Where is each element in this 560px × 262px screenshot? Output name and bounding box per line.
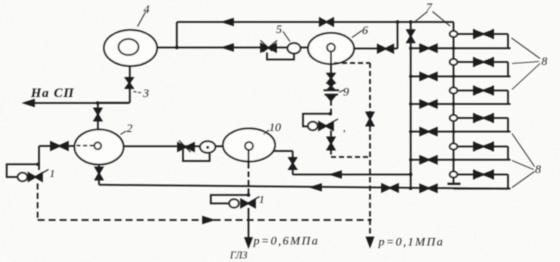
wire burner branch 6 loop <box>457 175 508 189</box>
wire counter 6 drain stem <box>330 64 332 74</box>
burner branch 6 tap circle <box>450 172 458 178</box>
svg-text:5: 5 <box>276 22 282 36</box>
node junction relief valve tee <box>36 163 39 166</box>
relief valve 1 middle: bypass loop <box>211 195 249 203</box>
relief valve 1 right: actuator circle <box>308 122 318 130</box>
manifold 7 left riser <box>410 22 412 188</box>
node junction row 2 left manifold <box>409 75 412 78</box>
burner branch 4 tap circle <box>450 115 458 121</box>
wire Na SP line y=103 <box>25 102 129 104</box>
valve 3 <box>126 78 133 83</box>
relief valve 1 right: bowtie <box>319 122 326 130</box>
wire burner branch 3 loop <box>457 91 508 105</box>
wire regulator 2 left inlet <box>39 146 75 170</box>
valve on header left of manifold <box>382 184 390 191</box>
valve on purge riser <box>367 113 374 120</box>
wire meter 4 bottom stem <box>98 66 130 103</box>
wire dashed corner to purge riser <box>331 150 370 158</box>
leader label 4 <box>138 12 146 27</box>
arrow flow left on low pressure header <box>312 184 322 190</box>
valve on regulator 10 inlet riser <box>289 158 296 164</box>
svg-text:3: 3 <box>142 86 149 100</box>
valve on drain upper <box>328 74 335 79</box>
relief valve 1 left: lever <box>36 170 49 177</box>
wire regulator 2 to regulator 10 <box>123 145 223 147</box>
node junction top line / counter riser <box>396 20 399 23</box>
filter circle <box>200 141 215 152</box>
regulator 2 inner circle <box>94 142 101 149</box>
valve row 2 between manifolds <box>420 73 428 80</box>
arrow flow left on main line <box>224 45 234 51</box>
shutoff valve 5 with lever <box>261 44 269 52</box>
valve row 1 between manifolds <box>420 45 428 52</box>
regulator 2 outer circle <box>75 130 124 165</box>
wire low pressure header to burners manifold <box>99 185 508 189</box>
wire dashed drain to relief tee <box>330 101 332 114</box>
svg-text:ГЛЗ: ГЛЗ <box>229 251 247 262</box>
burner branch 1 tap circle <box>450 31 458 37</box>
node junction row 5 left manifold <box>409 158 412 161</box>
orifice 9 flange bars <box>324 90 340 94</box>
counter 6 outer circle <box>308 33 354 64</box>
regulator 2 impulse dash inside <box>77 145 94 147</box>
wire below relief to valve <box>330 131 332 138</box>
relief valve 1 middle: bowtie <box>241 200 248 208</box>
node junction inlet line / left manifold <box>409 173 412 176</box>
burner branch 2 tap circle <box>450 59 458 65</box>
node junction row 6 left manifold <box>409 187 412 190</box>
valve row 4 between manifolds <box>420 128 428 135</box>
svg-text:1: 1 <box>259 194 265 206</box>
burner branch 3 tap circle <box>450 88 458 94</box>
node junction row 4 right manifold <box>452 130 455 133</box>
svg-text:1: 1 <box>50 168 56 180</box>
leader label 6 <box>352 31 362 38</box>
svg-text:2: 2 <box>127 121 133 135</box>
leader label 2 <box>121 131 127 135</box>
relief valve 1 left: actuator circle <box>18 173 28 181</box>
node junction row 1 left manifold <box>409 47 412 50</box>
valve below relief right <box>328 138 335 144</box>
valve above regulator 2 <box>94 109 101 115</box>
node junction row 3 right manifold <box>452 102 455 105</box>
wire regulator 2 bottom outlet <box>98 165 100 185</box>
regulator 10 inner circle <box>245 142 253 150</box>
node junction relief valve middle tee <box>247 193 250 196</box>
valve below regulator 2 <box>96 168 103 174</box>
arrow to consumers <box>25 100 35 106</box>
node junction Na SP / regulator 2 <box>96 101 99 104</box>
meter 4 outer circle <box>104 30 157 66</box>
valve burner branch 1 <box>474 30 484 37</box>
svg-text:8: 8 <box>542 56 548 68</box>
wire dashed long bottom line y=220 <box>38 219 370 221</box>
wire burner branch 5 loop <box>457 147 508 160</box>
manifold 7 right riser <box>453 22 455 178</box>
svg-text:р=0,6МПа: р=0,6МПа <box>253 234 320 248</box>
svg-text:р=0,1МПа: р=0,1МПа <box>378 235 445 249</box>
svg-text:6: 6 <box>362 23 368 37</box>
orifice 9 triangle <box>328 96 335 100</box>
leader label 9 <box>339 90 344 93</box>
wire counter 6 outlet to riser x=397.5 <box>354 22 398 49</box>
node junction row 2 right manifold <box>452 75 455 78</box>
node junction purge riser / bottom dashed line <box>369 219 372 222</box>
wire riser from junction to top line <box>176 22 178 48</box>
shutoff valve 5 lever <box>261 41 278 53</box>
shutoff valve lever <box>179 141 191 153</box>
arrow flow left on top line <box>224 19 234 25</box>
wire junction down to regulator 2 <box>97 103 99 130</box>
valve on top bypass line <box>320 18 327 25</box>
arrow down p=0.6 <box>245 238 251 247</box>
node junction at meter outlet <box>175 46 178 49</box>
wire burner branch 1 loop <box>457 34 508 48</box>
valve burner branch 6 <box>474 171 484 178</box>
leader label 8 lower <box>512 134 535 188</box>
right riser bottom flange <box>448 183 461 185</box>
relief valve 1 left: bypass loop <box>7 164 38 177</box>
svg-text:,: , <box>343 122 346 134</box>
wire burner row 5 <box>411 159 511 161</box>
wire burner row 3 <box>411 103 511 105</box>
valve burner branch 4 <box>474 114 484 121</box>
wire dashed impulse from counter 6 <box>334 62 370 64</box>
wire burner row 1 <box>411 47 511 49</box>
leader label 7 <box>415 12 451 27</box>
node junction row 1 right manifold <box>452 47 455 50</box>
arrow flow left toward regulator 10 <box>332 172 342 178</box>
valve burner branch 3 <box>474 87 484 94</box>
svg-text:8: 8 <box>535 162 541 176</box>
node junction row 5 right manifold <box>452 158 455 161</box>
svg-text:9: 9 <box>343 85 349 99</box>
meter 4 inner circle <box>119 39 139 55</box>
relief valve 1 middle: lever <box>249 197 260 204</box>
counter 6 inner circle and stem <box>327 44 335 52</box>
relief valve 1 middle: actuator circle <box>229 199 239 207</box>
valve on left riser top <box>407 30 414 36</box>
valve on drain lower small <box>328 83 334 86</box>
svg-text:4: 4 <box>144 2 150 16</box>
node junction row 3 left manifold <box>409 102 412 105</box>
valve burner branch 2 <box>474 58 484 65</box>
wire impulse to pressure tap p=0.6 <box>248 208 250 238</box>
bypass loop under shutoff valve <box>183 150 210 162</box>
relief valve 1 right: bypass loop <box>303 114 330 127</box>
node junction relief valve right tee <box>329 112 332 115</box>
wire burner branch 2 loop <box>457 62 508 76</box>
valve burner branch 5 <box>474 143 484 150</box>
wire dashed purge riser upper <box>369 63 371 112</box>
valve on regulator 2 inlet <box>51 142 60 150</box>
arrow flow right on dashed line <box>203 217 213 223</box>
wire burner row 4 <box>411 131 511 133</box>
wire regulator 10 right inlet loop <box>273 151 411 175</box>
valve row 3 between manifolds <box>420 100 428 107</box>
wire top bypass line y=22 <box>177 21 454 23</box>
burner branch 5 tap circle <box>450 144 458 150</box>
wire regulator 10 impulse down <box>248 150 250 163</box>
leader label 10 <box>264 130 270 135</box>
wire burner row 6 right extension <box>454 188 511 190</box>
relief valve 1 right: lever <box>327 119 339 126</box>
svg-text:На СП: На СП <box>30 85 75 100</box>
valve row 5 between manifolds <box>420 156 428 163</box>
svg-text:10: 10 <box>269 120 281 134</box>
shutoff valve with lever before filter <box>178 143 186 151</box>
node junction row 4 left manifold <box>409 130 412 133</box>
wire dashed purge riser lower <box>369 126 371 238</box>
bypass loop under valve 5 <box>267 53 294 60</box>
relief valve 1 left: bowtie <box>29 173 36 181</box>
wire main line y=47.5 meter to counter <box>157 47 309 49</box>
wire burner row 2 <box>411 75 511 77</box>
regulator 10 outer circle <box>223 129 275 162</box>
leader label 5 <box>283 32 290 42</box>
wire burner branch 4 loop <box>457 118 508 132</box>
leader label 8 upper <box>512 38 541 90</box>
wire dashed vent down-left column <box>37 184 39 220</box>
arrow down p=0.1 <box>367 238 373 247</box>
valve row 6 between manifolds <box>420 185 428 192</box>
valve on counter 6 outlet <box>378 45 386 53</box>
leader label 3 <box>134 92 143 94</box>
filter 5 circle <box>288 43 301 53</box>
